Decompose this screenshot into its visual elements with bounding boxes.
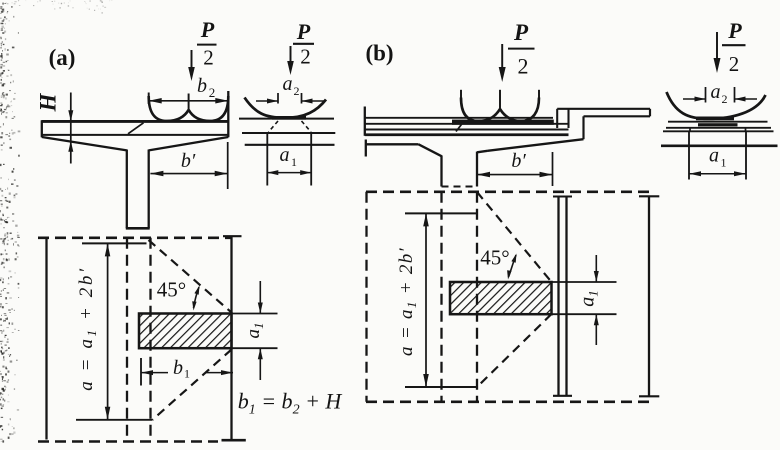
svg-text:1: 1 <box>721 156 727 170</box>
svg-text:a = a1 + 2b′: a = a1 + 2b′ <box>76 266 99 391</box>
svg-text:1: 1 <box>184 367 190 381</box>
svg-text:b: b <box>173 357 183 379</box>
svg-text:P: P <box>513 20 529 45</box>
svg-text:(a): (a) <box>49 45 76 70</box>
svg-text:P: P <box>296 19 311 44</box>
svg-text:2: 2 <box>518 54 529 79</box>
svg-text:b: b <box>197 75 207 97</box>
svg-text:2: 2 <box>729 52 740 76</box>
svg-text:45°: 45° <box>480 246 509 270</box>
svg-text:P: P <box>727 18 742 43</box>
svg-text:(b): (b) <box>365 41 393 66</box>
svg-text:a1: a1 <box>243 323 266 339</box>
svg-text:1: 1 <box>291 155 297 169</box>
svg-text:a1: a1 <box>577 290 601 307</box>
svg-text:a: a <box>280 144 290 166</box>
svg-text:45°: 45° <box>157 278 186 302</box>
svg-text:b1 = b2 + H: b1 = b2 + H <box>238 389 343 418</box>
svg-text:a: a <box>283 73 293 95</box>
svg-text:a: a <box>711 81 721 103</box>
svg-text:2: 2 <box>294 84 300 98</box>
svg-text:b′: b′ <box>181 150 196 172</box>
svg-text:H: H <box>36 92 61 112</box>
svg-text:a = a1 + 2b′: a = a1 + 2b′ <box>396 247 419 356</box>
svg-text:P: P <box>200 17 215 42</box>
svg-text:2: 2 <box>300 45 311 69</box>
svg-text:b′: b′ <box>511 150 526 172</box>
svg-text:a: a <box>709 145 719 167</box>
svg-text:2: 2 <box>722 92 728 106</box>
svg-text:2: 2 <box>203 46 214 70</box>
svg-text:2: 2 <box>209 85 216 100</box>
